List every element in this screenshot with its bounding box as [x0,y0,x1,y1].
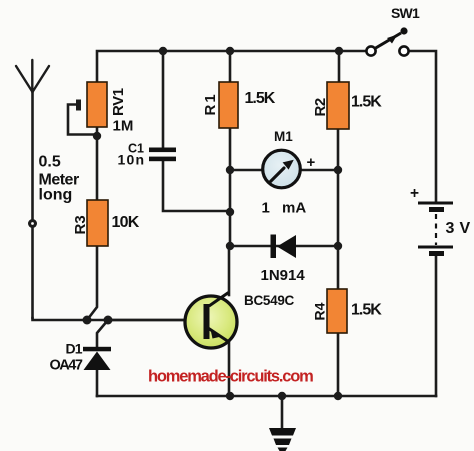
svg-text:0.5: 0.5 [39,154,61,171]
svg-text:+: + [307,154,316,171]
svg-text:1.5K: 1.5K [351,94,382,111]
svg-text:1M: 1M [113,118,134,135]
svg-text:RV1: RV1 [110,88,127,116]
svg-text:homemade-circuits.com: homemade-circuits.com [148,368,313,386]
svg-text:M1: M1 [274,129,293,144]
svg-text:10n: 10n [118,151,146,167]
svg-text:R4: R4 [312,302,328,320]
svg-text:R3: R3 [72,215,89,234]
svg-text:1: 1 [262,200,270,217]
svg-text:D1: D1 [66,341,83,357]
svg-text:long: long [39,187,73,204]
svg-text:10K: 10K [112,214,140,231]
svg-text:1.5K: 1.5K [245,90,276,107]
svg-text:R1: R1 [202,92,219,115]
svg-text:BC549C: BC549C [244,293,295,308]
svg-text:1.5K: 1.5K [351,302,382,319]
svg-text:1N914: 1N914 [261,267,306,284]
svg-text:R2: R2 [312,98,329,116]
svg-text:3 V: 3 V [446,220,471,237]
svg-text:+: + [410,185,419,202]
svg-text:mA: mA [282,200,306,217]
svg-text:SW1: SW1 [391,5,420,21]
svg-text:OA47: OA47 [50,358,83,374]
